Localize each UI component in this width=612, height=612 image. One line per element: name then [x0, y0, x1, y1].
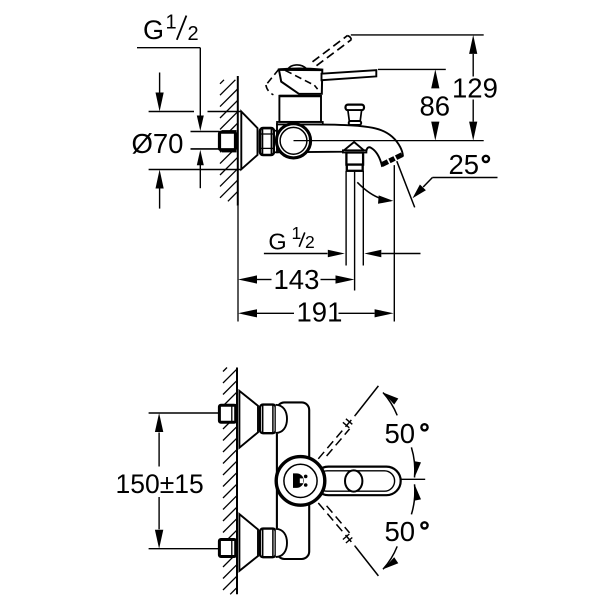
svg-text:191: 191	[297, 297, 343, 328]
svg-text:129: 129	[452, 72, 498, 103]
svg-text:50: 50	[385, 516, 416, 547]
svg-text:2: 2	[188, 23, 199, 45]
svg-text:1: 1	[166, 12, 177, 34]
svg-text:143: 143	[274, 264, 320, 295]
svg-text:1: 1	[292, 223, 302, 243]
svg-text:G: G	[268, 229, 286, 255]
svg-text:Ø70: Ø70	[132, 128, 184, 159]
svg-text:25: 25	[449, 149, 480, 180]
svg-text:150±15: 150±15	[116, 469, 204, 499]
svg-text:2: 2	[305, 232, 315, 252]
svg-text:G: G	[143, 15, 164, 45]
svg-text:86: 86	[420, 90, 451, 121]
svg-text:50: 50	[385, 418, 416, 449]
